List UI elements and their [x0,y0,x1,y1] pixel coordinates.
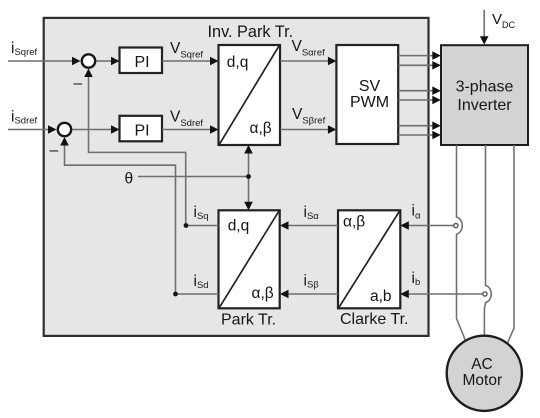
wire S2 to PI2 [73,125,120,134]
svg-text:θ: θ [125,171,134,188]
wire PI2 to Inv Park [162,125,219,134]
svg-text:Motor: Motor [462,372,502,389]
summing junction S1 [82,54,95,67]
svg-text:PI: PI [135,54,150,71]
svg-text:d,q: d,q [228,217,250,234]
svg-text:α,β: α,β [343,214,365,231]
wire ib sensor to Clarke [400,290,482,299]
6 gate wires SVPWM to inverter [398,51,441,139]
wire Inv Park to SVPWM row1 [280,57,336,66]
wire S1 to PI1 [97,57,120,66]
wire iSb Clarke to Park [280,290,338,299]
phase wire b with sensor loop [484,145,491,336]
svg-text:α,β: α,β [252,285,274,302]
svg-text:–: – [50,142,59,159]
AC motor [447,336,522,411]
wire iSa Clarke to Park [280,221,338,230]
junction iSd corner node [173,292,178,297]
theta link vertical double arrow [244,145,253,210]
wire ia sensor to Clarke [400,221,453,230]
wire iSdref input [8,125,57,134]
svg-text:3-phase: 3-phase [456,79,514,96]
svg-text:Clarke Tr.: Clarke Tr. [340,311,408,328]
wire iSq feedback [84,69,218,226]
svg-text:AC: AC [471,356,493,373]
block SV PWM [336,45,398,144]
block 3-phase inverter [441,45,528,145]
junction theta node [246,174,251,179]
theta wire [138,176,249,178]
wire PI1 to Inv Park [162,57,219,66]
block PI1 [120,48,163,74]
svg-text:d,q: d,q [227,54,249,71]
block Park transform [219,210,280,308]
current sensor node ib [483,292,487,296]
block PI2 [120,116,163,142]
wire Inv Park to SVPWM row2 [280,125,336,134]
svg-text:SV: SV [359,78,381,95]
svg-text:Inverter: Inverter [457,97,512,114]
phase wire c [508,145,515,343]
wire VDC input [480,10,489,45]
svg-text:PWM: PWM [350,94,389,111]
junction iSq corner node [184,223,189,228]
svg-text:PI: PI [135,122,150,139]
svg-text:–: – [74,75,83,92]
current sensor node ia [454,224,458,228]
summing junction S2 [58,123,71,136]
block Clarke transform [338,210,400,308]
svg-text:Inv. Park Tr.: Inv. Park Tr. [208,23,294,41]
phase wire a with sensor loop [457,145,466,341]
svg-text:Park Tr.: Park Tr. [221,311,276,328]
block Inv Park transform [219,45,281,145]
wire iSqref input [8,57,81,66]
svg-text:a,b: a,b [370,288,392,305]
svg-text:α,β: α,β [250,120,272,137]
control unit enclosure [44,18,429,336]
wire iSd feedback [60,137,218,294]
